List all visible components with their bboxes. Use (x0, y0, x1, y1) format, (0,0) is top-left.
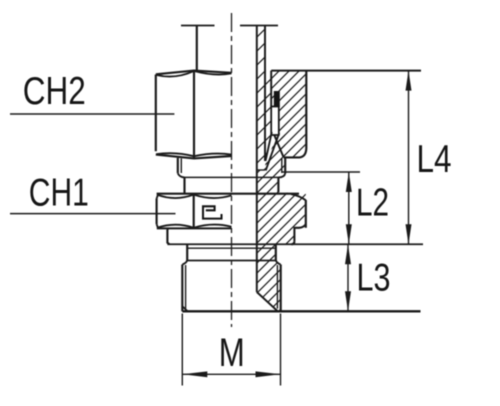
dimension M extension line right (280, 314, 282, 386)
nut section bore edge (270, 71, 272, 107)
dimension M extension line left (181, 314, 183, 386)
leader line CH1 (10, 213, 176, 215)
dimension L3 line (347, 244, 349, 311)
hex CH1 left edge (156, 198, 158, 224)
groove edge right (277, 177, 279, 192)
dimension L3 top arrow (345, 244, 351, 264)
dimension M left arrow (182, 371, 207, 377)
logo mark on hex (203, 206, 222, 218)
hex CH1 bottom chamfer arcs (157, 225, 232, 228)
body entry cone edge (266, 133, 280, 171)
hex CH1 section right edge (305, 200, 307, 228)
svg-text:L3: L3 (357, 256, 391, 299)
dimension L4 bottom arrow (406, 224, 412, 244)
svg-text:M: M (219, 331, 245, 375)
tube end stop face (257, 169, 265, 171)
washer right edge (291, 241, 294, 244)
body neck thread major right (284, 157, 286, 173)
stud chamfer left (183, 307, 188, 312)
hatch body section (257, 133, 306, 311)
tube outer edge left view (196, 26, 198, 73)
stud thread runout left (182, 261, 187, 265)
dimension M right arrow (256, 371, 281, 377)
dimension L2 top arrow (346, 172, 352, 192)
hex nut CH2 top chamfer arcs (157, 71, 232, 77)
tube break line left (181, 25, 215, 27)
body neck thread minor left (180, 158, 182, 173)
hex CH1 top edge (157, 193, 299, 195)
svg-text:CH2: CH2 (23, 70, 86, 113)
seal ring groove line (187, 247, 276, 249)
dimension L4 top arrow (406, 71, 412, 91)
body neck thread runout right (278, 174, 285, 178)
hex nut CH2 bottom silhouette (156, 155, 232, 159)
groove shoulder edge line (185, 176, 280, 178)
dimension L2 bottom arrow (346, 224, 352, 244)
hex CH1 section bottom step (294, 224, 305, 241)
hex CH1 bottom edge (157, 227, 232, 229)
hatch tube wall section (257, 26, 271, 171)
hex CH1 bottom left corner cut (157, 224, 159, 228)
hex CH1 section top chamfer (291, 194, 306, 200)
washer bottom edge and L2 L4 witness line (167, 243, 423, 245)
hex nut CH2 top silhouette (156, 71, 232, 75)
nut section skirt cone (273, 131, 284, 157)
cutting ring body (271, 107, 279, 136)
body neck thread minor right (281, 158, 283, 173)
svg-text:L4: L4 (417, 138, 452, 181)
dimension L4 line (408, 71, 410, 245)
stud bore cone section (257, 292, 278, 311)
washer top left corner (167, 228, 168, 229)
hex nut CH2 left edge (155, 75, 157, 152)
svg-text:CH1: CH1 (29, 171, 89, 214)
stud bottom edge and L3 witness line (182, 310, 420, 312)
body neck thread runout left (178, 173, 185, 177)
stud thread major right (280, 265, 282, 312)
hex nut CH2 bottom chamfer arcs (156, 153, 231, 156)
cutting ring tail edge (266, 132, 272, 161)
body neck thread major left (177, 158, 179, 173)
tube break line right (240, 25, 278, 27)
thread start edge line (187, 260, 276, 262)
stud thread minor right (276, 265, 278, 309)
dimension L2 line (348, 172, 350, 244)
hatch nut section (271, 71, 306, 158)
washer left edge (167, 229, 169, 244)
stud thread minor left (185, 265, 187, 309)
centerline (231, 13, 233, 327)
cutting ring bite edge (274, 91, 280, 107)
dimension L3 bottom arrow (345, 291, 351, 311)
stud thread runout right (276, 261, 281, 265)
hex CH1 corner edge (193, 194, 195, 228)
dimension L2 witness line (283, 171, 361, 173)
hex CH1 top chamfer arcs (157, 195, 232, 198)
tube bore wall section (256, 26, 258, 293)
groove edge left (183, 177, 185, 193)
seal land edge left (186, 244, 188, 260)
hex nut CH2 corner edge (193, 71, 195, 158)
nut section top edge and L4 witness line (271, 70, 421, 72)
nut section outer edge (284, 71, 307, 158)
dimension M line (182, 373, 280, 375)
tube outer wall section (264, 26, 266, 162)
svg-text:L2: L2 (356, 182, 389, 225)
stud thread major left (181, 265, 183, 312)
seal land edge right (275, 244, 277, 260)
leader line CH2 (10, 113, 174, 115)
hex CH1 top left corner cut (157, 194, 159, 198)
